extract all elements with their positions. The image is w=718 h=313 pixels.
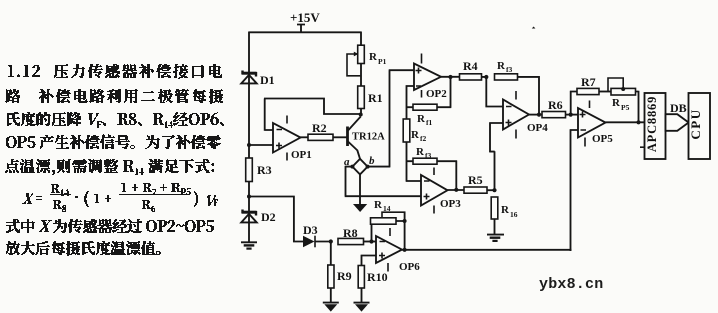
- R14 wiper loop: [381, 212, 405, 218]
- ground (filled) below R10: [354, 303, 370, 312]
- R14 right lead and drop to OP6 output: [396, 212, 405, 251]
- svg-text:TR12A: TR12A: [352, 132, 385, 143]
- feedback resistor Rf3: [413, 158, 437, 164]
- Rf3 right lead and riser to OP3 output: [437, 161, 457, 191]
- node R1 / feedback / collector: [359, 113, 363, 117]
- svg-text:DB: DB: [670, 101, 687, 115]
- OP6 power stubs: [388, 228, 390, 272]
- svg-text:D3: D3: [303, 223, 318, 237]
- node junction at D2 top: [247, 195, 251, 199]
- ground (filled) below R9: [323, 303, 339, 312]
- OP2 input polarity marks: [416, 68, 422, 87]
- wire OP3 output to R5: [448, 189, 465, 191]
- svg-text:R5: R5: [468, 173, 483, 187]
- wire R6 to OP5 + input: [566, 114, 579, 116]
- OP6 input polarity marks: [379, 242, 385, 259]
- op-amp OP1: [273, 123, 301, 153]
- wire OP1 output to R2: [300, 136, 308, 138]
- wire bridge bottom to ground: [359, 175, 361, 205]
- OP4 input polarity marks: [506, 107, 512, 126]
- wire R5 to node: [487, 189, 495, 191]
- svg-text:f3: f3: [506, 65, 512, 74]
- Rf4 right lead and drop to OP4 output: [518, 76, 540, 115]
- svg-text:f2: f2: [420, 134, 426, 143]
- resistor R16 (vertical): [491, 197, 498, 219]
- OP2 power stubs: [421, 54, 423, 98]
- svg-text:R: R: [411, 129, 420, 141]
- resistor R5: [464, 187, 487, 193]
- wire R4 node down to OP4 - input: [482, 77, 504, 107]
- wire OP2 output to R4: [441, 76, 460, 78]
- node at OP6 output: [403, 248, 407, 252]
- svg-text:P5: P5: [621, 103, 630, 112]
- wire OP1 + input from rail: [249, 144, 273, 146]
- node R14 right at drop: [403, 219, 407, 223]
- zener diode D1: [241, 71, 256, 84]
- feedback riser to R7: [570, 91, 577, 116]
- feedback resistor Rf4: [495, 74, 518, 80]
- resistor R10 (vertical): [358, 266, 364, 289]
- wire R2 to base: [333, 136, 348, 138]
- resistor R6: [542, 112, 566, 118]
- ground (hatched) below R16: [487, 235, 504, 241]
- wire OP6 + input to R10: [361, 255, 376, 266]
- resistor R2: [308, 134, 333, 140]
- svg-text:R8: R8: [343, 226, 358, 240]
- wire R10 to ground: [361, 288, 363, 303]
- RP1 wiper loop: [347, 54, 360, 76]
- op-amp OP6: [376, 236, 402, 263]
- svg-text:b: b: [369, 155, 375, 167]
- riser to R14 left end: [371, 222, 373, 243]
- data bus DB arrow: [666, 114, 689, 131]
- resistor Rf2 (vertical): [403, 119, 410, 142]
- op-amp OP3: [421, 175, 448, 206]
- svg-text:+15V: +15V: [290, 10, 320, 25]
- wire R9 to ground: [330, 288, 332, 303]
- svg-text:OP3: OP3: [440, 198, 461, 210]
- wire OP1 - input and feedback loop to R1 bottom node: [264, 98, 360, 131]
- wire R8 to OP6 - input: [364, 241, 377, 243]
- resistor R4: [460, 74, 482, 80]
- OP4 power stubs: [515, 91, 517, 139]
- op-amp OP2: [414, 64, 441, 91]
- trimmer resistor RP5: [611, 88, 636, 95]
- svg-text:16: 16: [510, 210, 518, 219]
- svg-text:OP2: OP2: [426, 88, 447, 100]
- top rail right corner down to RP1: [360, 32, 362, 46]
- wire R16 to ground: [494, 219, 496, 234]
- trimmer resistor R14 (OP6 feedback): [371, 218, 397, 224]
- svg-text:R2: R2: [312, 121, 327, 135]
- svg-text:D1: D1: [260, 73, 275, 87]
- node a (left vertex): [350, 165, 354, 169]
- node OP5 + / feedback riser: [569, 113, 573, 117]
- OP1 input polarity marks: [276, 130, 282, 149]
- svg-text:R: R: [501, 204, 510, 216]
- node at OP3 output / Rf3: [454, 188, 458, 192]
- wire OP5 output to APC8869: [606, 121, 645, 123]
- node OP6 - / R14 riser: [369, 239, 373, 243]
- wire OP4 output to R6: [529, 114, 543, 116]
- long wire OP6 output to OP5 - riser: [402, 249, 572, 251]
- svg-text:R3: R3: [257, 163, 272, 177]
- node R5 / R16 / OP4 +: [492, 188, 496, 192]
- svg-text:R6: R6: [548, 98, 563, 112]
- resistor R1: [358, 86, 365, 109]
- transistor TR12A: [348, 117, 361, 159]
- wire OP5 - input to long feedback from OP6: [570, 129, 578, 251]
- resistor R7: [577, 88, 599, 94]
- svg-text:CPU: CPU: [688, 108, 703, 139]
- wire node b riser to OP2 + input: [368, 70, 414, 167]
- svg-text:OP5: OP5: [592, 133, 613, 145]
- wire D3 to R9 node: [315, 241, 332, 243]
- wire RP1 to R1: [360, 63, 362, 86]
- svg-text:R4: R4: [463, 59, 478, 73]
- op-amp OP4: [503, 100, 529, 130]
- wire node to R9: [330, 242, 332, 266]
- resistor R8: [338, 238, 364, 244]
- OP3 power stubs: [433, 168, 435, 214]
- ADC block APC8869: [645, 93, 666, 159]
- OP1 power stubs: [286, 116, 288, 161]
- node after R4: [484, 75, 488, 79]
- trimmer resistor RP1: [358, 45, 365, 63]
- top supply rail wire: [249, 31, 361, 33]
- svg-text:R: R: [369, 51, 378, 63]
- svg-text:ybx8.cn: ybx8.cn: [539, 276, 603, 293]
- wire R7 to RP5: [599, 91, 611, 93]
- resistor R3: [246, 158, 253, 182]
- svg-text:R: R: [497, 60, 506, 72]
- wire node a down and to OP3 + input: [345, 166, 422, 196]
- svg-text:14: 14: [383, 204, 391, 213]
- wire from D2 node to D3: [249, 196, 303, 243]
- node D3 / R9: [329, 239, 333, 243]
- OP3 input polarity marks: [424, 181, 430, 200]
- OP5 input polarity marks: [580, 112, 587, 131]
- svg-text:R1: R1: [368, 91, 383, 105]
- feedback resistor Rf1: [413, 104, 437, 110]
- svg-text:OP6: OP6: [399, 261, 420, 273]
- wire node up to OP4 + input (with jog): [489, 123, 503, 191]
- wire Rf2 to Rf3 node and OP3 - input: [406, 142, 422, 181]
- RP5 wiper loop: [608, 78, 623, 92]
- svg-text:R: R: [374, 199, 383, 211]
- svg-text:R7: R7: [581, 75, 596, 89]
- node at OP5 output: [636, 120, 640, 124]
- RP5 right lead and drop to OP5 output: [636, 91, 639, 123]
- left rail wire middle (D1 to R3): [248, 83, 250, 159]
- node b (right vertex): [366, 165, 370, 169]
- svg-text:APC8869: APC8869: [645, 96, 659, 152]
- zener diode D2: [241, 210, 256, 242]
- paragraph text block (traced): [5, 64, 224, 256]
- stray tick on APC left edge: [640, 146, 644, 148]
- +15V terminal T symbol: [297, 25, 305, 33]
- svg-text:R: R: [612, 97, 621, 109]
- diode D3: [303, 236, 315, 248]
- svg-text:OP1: OP1: [291, 149, 312, 161]
- op-amp OP5: [578, 108, 606, 138]
- svg-text:R: R: [416, 146, 425, 158]
- OP5 power stubs: [585, 101, 590, 147]
- svg-text:f1: f1: [426, 118, 432, 127]
- ground (filled) below bridge: [353, 204, 367, 212]
- svg-text:f3: f3: [425, 151, 431, 160]
- left rail wire upper (to D1): [248, 32, 250, 85]
- node: OP1 + tap: [247, 143, 251, 147]
- svg-text:R10: R10: [367, 270, 388, 284]
- resistor R9 (vertical): [328, 265, 334, 288]
- svg-text:R: R: [417, 113, 426, 125]
- svg-text:D2: D2: [261, 210, 276, 224]
- Rf1 leads and riser to OP2 output: [406, 77, 451, 108]
- svg-text:P1: P1: [378, 57, 387, 66]
- left rail wire lower (R3 to D2): [248, 182, 250, 223]
- node at OP4 output: [537, 113, 541, 117]
- svg-text:R9: R9: [337, 269, 352, 283]
- wire OP2 - input down to Rf1: [406, 85, 414, 119]
- stray ink speck: [532, 27, 536, 29]
- CPU block: [689, 93, 711, 159]
- ground (hatched) below D2: [241, 242, 257, 248]
- node at OP2 output / Rf1: [448, 75, 452, 79]
- svg-text:OP4: OP4: [527, 122, 548, 134]
- wire R1 bottom to collector node: [360, 109, 362, 116]
- sensor bridge (diamond): [352, 159, 367, 175]
- wiper contact node on RP5: [621, 87, 625, 91]
